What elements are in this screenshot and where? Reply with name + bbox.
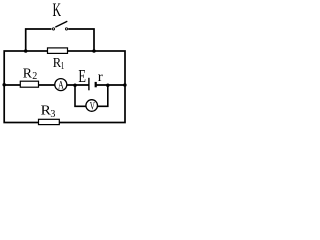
- resistor R1 box: [48, 48, 68, 54]
- resistor R3 box: [39, 119, 60, 124]
- resistor R2 box: [20, 81, 38, 87]
- junction dot right edge middle wire: [123, 83, 127, 87]
- junction dot left edge middle wire: [2, 83, 6, 87]
- wire switch branch left (vertical from junction up, horizontal to switch): [26, 29, 52, 52]
- svg-text:K: K: [53, 1, 62, 21]
- wire middle branch left (R2 and ammeter segment): [4, 84, 89, 86]
- svg-text:3: 3: [50, 109, 55, 120]
- svg-text:V: V: [90, 100, 96, 113]
- battery long plate (positive): [88, 78, 90, 91]
- svg-text:r: r: [98, 70, 103, 85]
- junction dot right of K branch: [92, 49, 96, 53]
- wire main loop (R1 wire top, left vertical, bottom wire, right vertical): [4, 51, 125, 123]
- svg-text:1: 1: [61, 61, 65, 72]
- switch K right contact circle: [65, 28, 67, 30]
- svg-text:R: R: [23, 67, 33, 82]
- voltmeter circle: [86, 100, 98, 112]
- svg-text:2: 2: [32, 71, 37, 82]
- junction dot voltmeter left tap: [73, 83, 77, 87]
- battery short plate (negative): [95, 82, 97, 87]
- wire switch branch right (from switch, down to junction): [68, 29, 94, 52]
- junction dot voltmeter right tap: [106, 83, 110, 87]
- wire voltmeter branch left: [75, 85, 86, 107]
- switch K left contact circle: [52, 28, 54, 30]
- svg-text:E: E: [78, 66, 86, 86]
- ammeter U circle: [55, 79, 67, 91]
- wire voltmeter branch right: [98, 85, 108, 107]
- wire middle branch right (battery to right edge): [96, 84, 125, 86]
- junction dot left of K branch: [24, 49, 28, 53]
- svg-text:A: A: [58, 79, 64, 91]
- switch K blade: [55, 21, 67, 27]
